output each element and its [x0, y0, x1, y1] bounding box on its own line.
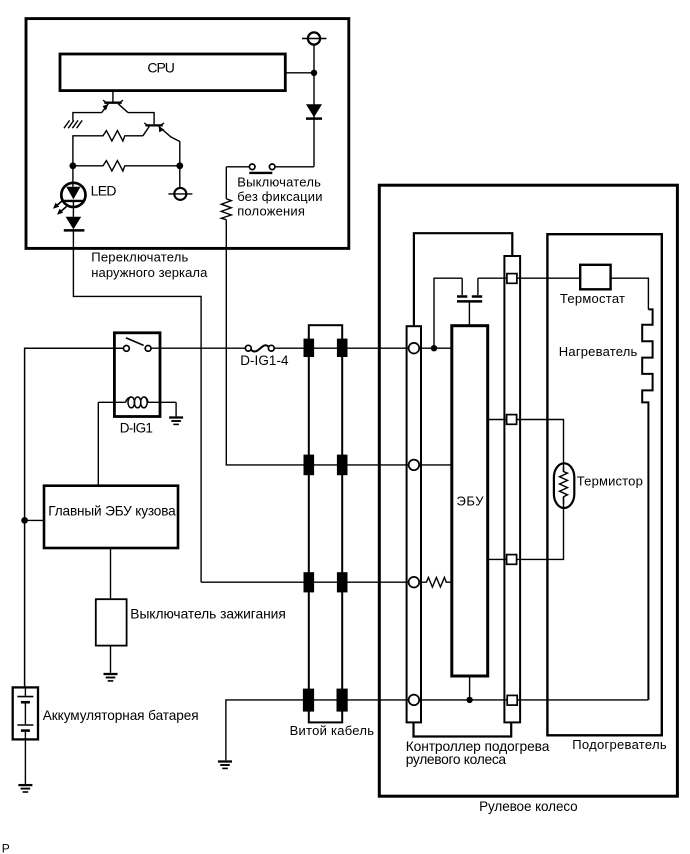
- wire CPU to node: [285, 72, 314, 74]
- wire Q1 collector to Q2 base: [128, 113, 154, 125]
- LED D2: [61, 166, 85, 217]
- terminal square D: [507, 695, 517, 705]
- svg-text:D-IG1-4: D-IG1-4: [240, 353, 289, 368]
- resistor R4: [425, 577, 452, 587]
- terminal square A: [507, 274, 517, 284]
- earth ground ignition: [104, 674, 118, 681]
- svg-text:рулевого колеса: рулевого колеса: [406, 752, 507, 767]
- cable block row3 right: [337, 572, 348, 592]
- controller strip 2: [504, 256, 520, 722]
- terminal B1: [302, 32, 327, 44]
- wire row1 relay to fuse: [151, 347, 246, 349]
- ignition switch box: [96, 599, 127, 645]
- capacitor pair C1 C2: [457, 278, 482, 326]
- mirror switch outer box: [26, 19, 349, 249]
- node: [176, 162, 183, 169]
- node: [70, 162, 77, 169]
- relay coil: [98, 397, 176, 408]
- heater element: [642, 309, 652, 700]
- thermostat box: [580, 265, 610, 290]
- node: [311, 70, 317, 76]
- bracket controller bottom: [414, 722, 512, 736]
- terminal square B: [507, 415, 517, 425]
- cable block row2 left: [304, 455, 315, 476]
- wire R1 to LED column: [73, 136, 101, 166]
- svg-text:Нагреватель: Нагреватель: [559, 344, 638, 359]
- main body ECU box: [44, 486, 178, 548]
- wire row4: [226, 700, 649, 760]
- resistor R3: [221, 167, 231, 220]
- diode D1: [306, 104, 322, 118]
- wire Q2 emitter down: [179, 142, 181, 188]
- earth ground row4: [218, 762, 232, 769]
- svg-text:CPU: CPU: [147, 59, 175, 75]
- bracket strip1 to strip2: [414, 233, 512, 325]
- relay D-IG1 box: [114, 333, 160, 417]
- transistor Q2: [143, 123, 180, 142]
- svg-text:Р: Р: [2, 841, 10, 854]
- resistor R2: [73, 161, 180, 171]
- node row1: [431, 345, 437, 351]
- svg-text:Термостат: Термостат: [560, 291, 625, 306]
- wire coil to body ECU: [97, 402, 99, 485]
- chassis ground: [64, 120, 82, 128]
- cable block row3 left: [304, 572, 315, 592]
- transistor Q1: [102, 91, 128, 113]
- wire coil to ground: [175, 402, 177, 416]
- pin row1: [409, 343, 420, 354]
- wire LED run to row3: [73, 230, 201, 582]
- resistor R1: [101, 131, 127, 141]
- svg-text:LED: LED: [91, 182, 117, 198]
- cable block row4 right: [337, 689, 348, 712]
- wire ECU bottom stem: [469, 676, 471, 700]
- battery: [13, 686, 38, 784]
- svg-text:наружного зеркала: наружного зеркала: [91, 265, 208, 280]
- fuse D-IG1-4: [245, 345, 274, 351]
- wire to body ECU: [25, 519, 44, 521]
- pin row4: [409, 695, 420, 706]
- label switch SW2: [237, 175, 322, 219]
- wire row2 from R3: [226, 220, 451, 465]
- svg-text:Рулевое колесо: Рулевое колесо: [479, 799, 578, 814]
- wire body ECU to ignition switch: [110, 548, 112, 598]
- svg-text:Термистор: Термистор: [577, 474, 643, 489]
- cable block row4 left: [303, 689, 314, 712]
- svg-text:Главный ЭБУ кузова: Главный ЭБУ кузова: [48, 503, 176, 518]
- wire thermistor bottom: [488, 497, 564, 559]
- wire C1 to row1 node: [434, 278, 462, 348]
- spiral cable loop: [309, 325, 342, 722]
- svg-text:Выключатель зажигания: Выключатель зажигания: [130, 607, 285, 622]
- wire thermostat to heater element: [610, 278, 648, 309]
- earth ground relay: [169, 418, 183, 425]
- pin row3: [409, 577, 420, 588]
- controller strip 1: [407, 326, 421, 722]
- label controller: [406, 739, 550, 767]
- svg-text:без фиксации: без фиксации: [237, 189, 322, 204]
- node row4: [466, 697, 472, 703]
- svg-text:D-IG1: D-IG1: [120, 421, 153, 436]
- wire C2 to thermostat: [478, 277, 580, 279]
- LED light arrows: [53, 201, 67, 215]
- svg-text:Аккумуляторная батарея: Аккумуляторная батарея: [43, 708, 199, 723]
- cable block row1 left: [304, 339, 315, 357]
- heater unit box: [547, 234, 661, 735]
- thermistor: [554, 463, 574, 508]
- terminal square C: [507, 555, 517, 565]
- wire B1 down to switch: [313, 44, 315, 166]
- momentary switch SW2: [226, 164, 314, 173]
- earth ground battery: [18, 785, 32, 792]
- ECU box: [452, 326, 488, 676]
- battery rail wire: [25, 348, 124, 686]
- wire thermistor top: [488, 420, 564, 473]
- wire ignition switch to ground: [110, 646, 112, 673]
- cable block row2 right: [337, 455, 348, 476]
- svg-text:ЭБУ: ЭБУ: [457, 494, 485, 509]
- CPU U1: [60, 54, 285, 91]
- terminal B2: [168, 188, 192, 200]
- relay contact: [124, 338, 152, 352]
- pin row2: [409, 460, 420, 471]
- svg-text:Выключатель: Выключатель: [237, 175, 321, 190]
- wire row3: [201, 581, 424, 583]
- wire row1 fuse to ECU: [274, 347, 452, 349]
- svg-text:положения: положения: [237, 204, 305, 219]
- node battery branch: [21, 517, 28, 524]
- diode D3: [64, 217, 85, 231]
- wire Q1 emitter to chassis ground: [73, 113, 102, 121]
- label mirror switch: [91, 250, 208, 280]
- wire Q2 collector to R1: [127, 135, 143, 137]
- cable block row1 right: [337, 339, 348, 357]
- steering wheel box: [379, 185, 677, 796]
- svg-text:Подогреватель: Подогреватель: [572, 737, 667, 752]
- svg-text:Переключатель: Переключатель: [91, 250, 188, 265]
- svg-text:Витой кабель: Витой кабель: [290, 723, 375, 738]
